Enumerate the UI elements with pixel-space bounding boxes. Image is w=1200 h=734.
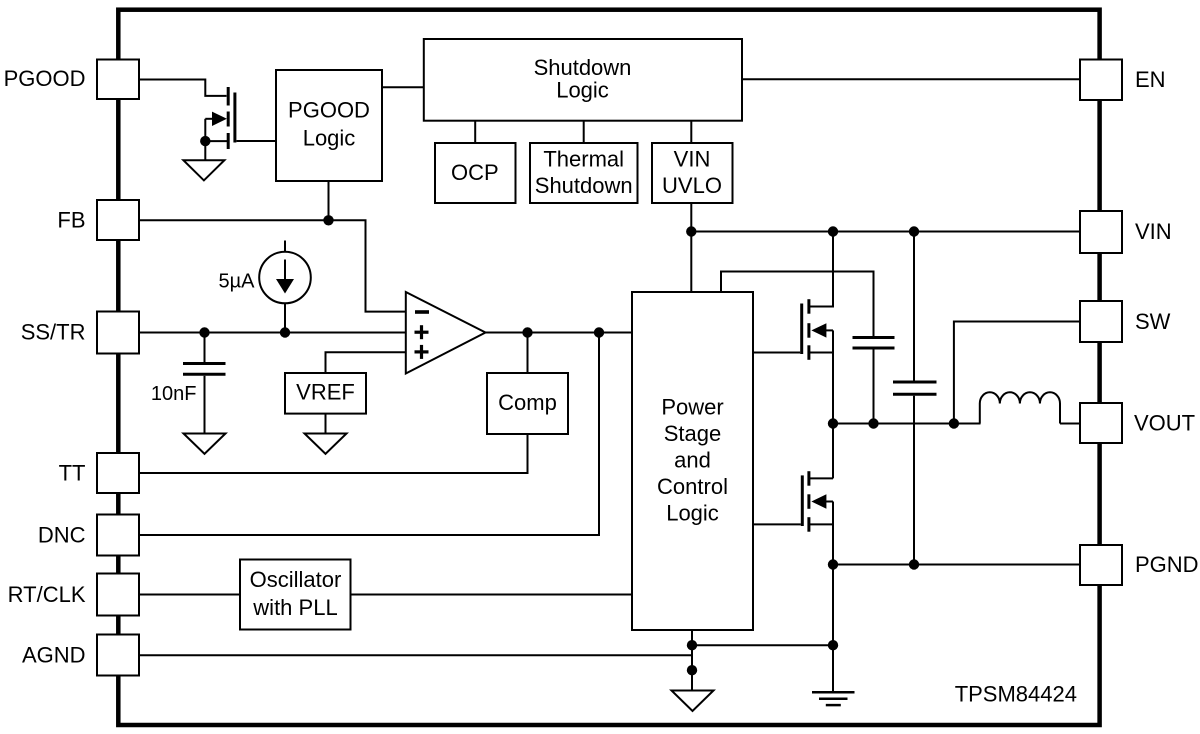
- node comp junction: [522, 327, 532, 337]
- svg-text:EN: EN: [1135, 67, 1166, 92]
- ground GND3: [305, 434, 347, 454]
- svg-text:VIN: VIN: [674, 147, 711, 172]
- svg-text:Comp: Comp: [498, 390, 557, 415]
- transistor Q1 source wire: [205, 140, 228, 142]
- svg-text:AGND: AGND: [22, 643, 86, 668]
- module outline TPSM84424: [118, 10, 1099, 725]
- node DNC junction: [594, 327, 604, 337]
- wire VIN UVLO node to Power Stage: [690, 232, 692, 293]
- wire RT/CLK to oscillator: [139, 594, 240, 596]
- transistor Q2: [802, 299, 809, 360]
- svg-text:TPSM84424: TPSM84424: [955, 682, 1077, 707]
- svg-text:VOUT: VOUT: [1134, 411, 1195, 436]
- node AGND junction 2: [687, 665, 697, 675]
- Power Stage and Control Logic box U5: [632, 292, 753, 630]
- svg-text:Power: Power: [661, 394, 723, 419]
- wire Power Stage to boot capacitor: [721, 272, 874, 337]
- wire L1 to VOUT: [1060, 423, 1080, 425]
- wire PGOOD Logic to Shutdown Logic: [382, 86, 424, 88]
- svg-text:FB: FB: [57, 208, 85, 233]
- node SW boot junction: [868, 418, 878, 428]
- OCP box: [435, 143, 516, 203]
- node VIN Q2 junction: [828, 226, 838, 236]
- wire oscillator to Power Stage: [351, 594, 632, 596]
- current source I1 arrow: [284, 260, 286, 281]
- transistor Q2 body arrow: [811, 323, 826, 337]
- svg-text:Logic: Logic: [303, 126, 356, 151]
- node SS/TR cap junction: [199, 327, 209, 337]
- wire Shutdown Logic to VIN UVLO: [690, 121, 692, 143]
- transistor Q3 drain wire: [809, 477, 833, 479]
- wire VIN UVLO to VIN net: [690, 203, 692, 232]
- wire PGND net: [833, 564, 1080, 566]
- wire VIN net: [691, 231, 1080, 233]
- node SW Q2 junction: [828, 418, 838, 428]
- wire C2 to SW net: [873, 350, 875, 424]
- wire VREF to op-amp + input: [326, 352, 406, 373]
- wire I1 to SS/TR net: [284, 303, 286, 332]
- wire C1 to ground: [204, 376, 206, 434]
- wire node to Comp: [527, 333, 529, 374]
- PGOOD Logic box U2: [276, 70, 382, 181]
- transistor Q1 body wire: [205, 118, 213, 120]
- node SW pin junction: [949, 418, 959, 428]
- svg-text:OCP: OCP: [451, 160, 499, 185]
- node SS/TR source junction: [280, 327, 290, 337]
- transistor Q1: [228, 87, 235, 149]
- transistor Q3 source wire: [809, 523, 833, 525]
- wire Shutdown Logic to EN: [742, 78, 1080, 80]
- VIN UVLO box: [652, 143, 733, 203]
- node power ground junction: [828, 640, 838, 650]
- transistor Q2 drain wire: [809, 232, 833, 307]
- pin VIN: [1080, 211, 1122, 253]
- wire SS/TR to op-amp + input: [139, 332, 406, 334]
- svg-text:Shutdown: Shutdown: [535, 173, 633, 198]
- pin PGOOD: [97, 60, 139, 100]
- wire DNC to op-amp output net: [139, 333, 599, 536]
- pin TT: [97, 453, 139, 493]
- Oscillator with PLL box U4: [240, 560, 351, 630]
- transistor Q2 source wire: [809, 352, 833, 354]
- pin VOUT: [1080, 403, 1122, 443]
- ground GND1: [183, 160, 224, 180]
- node AGND junction 1: [687, 640, 697, 650]
- svg-text:RT/CLK: RT/CLK: [8, 582, 86, 607]
- svg-text:5µA: 5µA: [219, 271, 256, 293]
- node Q1 source junction: [200, 136, 210, 146]
- transistor Q2 body wire: [825, 329, 833, 331]
- wire analog ground to power ground: [692, 644, 833, 646]
- capacitor C2 boot plates: [853, 338, 895, 349]
- transistor Q3: [802, 471, 809, 532]
- node PGND Q3 junction: [828, 559, 838, 569]
- op-amp U1 plus sign 1: [415, 325, 429, 339]
- node PGND cap junction: [909, 559, 919, 569]
- transistor Q3 body arrow: [811, 494, 826, 508]
- svg-text:UVLO: UVLO: [662, 173, 722, 198]
- pin RT/CLK: [97, 574, 139, 616]
- wire Q3 source to PGND net: [832, 502, 834, 565]
- Thermal Shutdown box: [530, 143, 638, 203]
- wire Q2 source to SW node: [832, 330, 834, 423]
- svg-text:with PLL: with PLL: [252, 595, 337, 620]
- svg-text:DNC: DNC: [38, 523, 86, 548]
- op-amp U1 plus sign 2: [415, 345, 429, 359]
- inductor L1: [980, 392, 1060, 423]
- pin DNC: [97, 515, 139, 556]
- svg-text:TT: TT: [59, 461, 86, 486]
- wire VREF to ground: [325, 414, 327, 434]
- wire SW net: [833, 423, 981, 425]
- pin SW: [1080, 301, 1122, 342]
- pin SS/TR: [97, 312, 139, 354]
- node VIN uvlo junction: [686, 226, 696, 236]
- transistor Q3 body wire: [825, 501, 833, 503]
- svg-text:Thermal: Thermal: [543, 147, 624, 172]
- Shutdown Logic box U3: [424, 39, 742, 121]
- node VIN cap junction: [909, 226, 919, 236]
- ground GND2: [184, 434, 226, 454]
- ground GND4: [672, 691, 714, 712]
- svg-text:Control: Control: [657, 474, 728, 499]
- svg-text:VIN: VIN: [1135, 219, 1172, 244]
- svg-text:SS/TR: SS/TR: [21, 320, 86, 345]
- Comp box: [487, 373, 568, 434]
- wire Power Stage to AGND ground: [691, 630, 693, 691]
- pin EN: [1080, 60, 1122, 101]
- wire PGOOD pin to Q1 drain: [139, 80, 227, 96]
- wire AGND to ground net: [139, 654, 692, 656]
- svg-text:Stage: Stage: [664, 421, 722, 446]
- transistor Q1 body arrow: [212, 112, 227, 126]
- op-amp U1 minus sign: [415, 310, 429, 314]
- capacitor C3 plates: [893, 382, 937, 394]
- transistor Q1 gate wire: [237, 140, 277, 142]
- svg-text:PGND: PGND: [1135, 552, 1199, 577]
- VREF box: [285, 373, 366, 414]
- capacitor C3 input lead: [913, 232, 915, 381]
- wire SW node to SW pin: [954, 322, 1080, 424]
- wire op-amp output to Power Stage: [486, 332, 633, 334]
- wire Shutdown Logic to Thermal Shutdown: [583, 121, 585, 143]
- wire Q1 source to ground: [204, 119, 206, 160]
- wire C3 to PGND net: [913, 396, 915, 565]
- wire Shutdown Logic to OCP: [474, 121, 476, 143]
- svg-text:VREF: VREF: [296, 380, 355, 405]
- svg-text:Shutdown: Shutdown: [534, 55, 632, 80]
- pin AGND: [97, 635, 139, 676]
- svg-text:PGOOD: PGOOD: [4, 66, 86, 91]
- wire FB to op-amp inverting input: [139, 220, 406, 311]
- svg-text:Logic: Logic: [556, 78, 609, 103]
- current source I1 5uA: [259, 252, 311, 304]
- node FB junction: [323, 215, 333, 225]
- wire TT to Comp: [139, 434, 528, 473]
- svg-text:10nF: 10nF: [151, 383, 197, 405]
- pin PGND: [1080, 545, 1122, 585]
- svg-text:Logic: Logic: [666, 500, 719, 525]
- svg-text:PGOOD: PGOOD: [288, 98, 370, 123]
- svg-text:Oscillator: Oscillator: [250, 567, 342, 592]
- transistor Q3 gate wire: [753, 523, 801, 525]
- svg-text:and: and: [674, 447, 711, 472]
- ground E1 earth: [812, 692, 855, 705]
- capacitor C1 plates: [183, 364, 226, 375]
- op-amp U1: [406, 292, 486, 374]
- transistor Q2 gate wire: [753, 352, 800, 354]
- wire Q3 source to power ground: [832, 565, 834, 693]
- wire PGOOD Logic to FB node: [328, 181, 330, 220]
- svg-text:SW: SW: [1135, 309, 1171, 334]
- wire SW node to Q3 drain: [832, 424, 834, 479]
- pin FB: [97, 200, 139, 240]
- capacitor C1 10nF lead: [204, 333, 206, 363]
- current source I1 5uA stub: [284, 241, 286, 253]
